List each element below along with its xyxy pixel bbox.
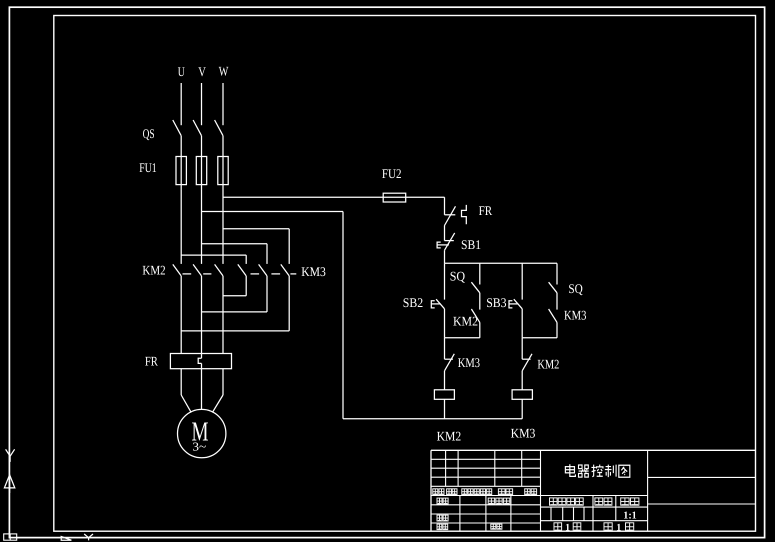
- wire control feed: [223, 196, 383, 198]
- svg-text:1: 1: [565, 522, 570, 533]
- svg-text:SQ: SQ: [568, 281, 583, 296]
- label FR contact: [479, 203, 493, 218]
- svg-text:FU1: FU1: [139, 160, 156, 175]
- coil KM2: [434, 390, 454, 400]
- wire KM3 pole2 to V line: [202, 276, 268, 312]
- label SB1: [461, 237, 481, 252]
- svg-text:SQ: SQ: [450, 268, 466, 283]
- label QS: [143, 126, 155, 141]
- wire KM3 pole1 to W line: [223, 276, 246, 296]
- svg-text:KM2: KM2: [453, 314, 478, 329]
- svg-text:SB3: SB3: [486, 295, 507, 310]
- svg-text:FR: FR: [145, 353, 158, 368]
- svg-text:KM2: KM2: [537, 356, 559, 371]
- svg-text:U: U: [178, 64, 185, 79]
- svg-text:W: W: [219, 64, 229, 79]
- label KM3 self-hold: [564, 308, 587, 323]
- wire nodeA-SQ left: [479, 263, 481, 284]
- svg-text:SB2: SB2: [403, 295, 423, 310]
- wire KM2aux-bottom: [479, 322, 481, 337]
- wire V FR-motor: [201, 363, 203, 409]
- bottom margin triangle mark: [61, 537, 71, 541]
- contact KM2 self-hold: [471, 309, 479, 322]
- svg-text:KM3: KM3: [301, 264, 326, 279]
- limit switch SQ left: [471, 282, 479, 293]
- label SB3: [486, 295, 507, 310]
- label KM2 main: [142, 263, 165, 278]
- wire U to KM3 pole1: [181, 255, 246, 264]
- wire U QS-FU1: [180, 136, 182, 157]
- label KM2 interlock: [537, 356, 559, 371]
- pushbutton SB1: [437, 233, 455, 250]
- wire control return: [202, 212, 344, 419]
- wire U supply: [180, 83, 182, 125]
- wire right group bottom: [522, 337, 557, 339]
- fuse FU2: [383, 193, 406, 202]
- linkage dashes: [183, 273, 297, 275]
- bottom margin corner squares: [4, 534, 17, 540]
- svg-text:1: 1: [616, 522, 621, 533]
- thermal contact FR: [445, 205, 467, 226]
- scale value 1:1: [623, 511, 637, 522]
- contact KM3 interlock: [445, 354, 455, 371]
- wire U FU1-KM2: [180, 185, 182, 264]
- svg-text:SB1: SB1: [461, 237, 481, 252]
- label FR heater: [145, 353, 158, 368]
- wire V supply: [201, 83, 203, 125]
- disconnect switch QS: [173, 120, 223, 136]
- svg-text:QS: QS: [143, 126, 155, 141]
- svg-text:FR: FR: [479, 203, 493, 218]
- svg-text:V: V: [198, 64, 206, 79]
- wire leftgroup-KM3int: [444, 338, 446, 359]
- limit switch SQ right: [549, 282, 557, 293]
- svg-text:3~: 3~: [192, 440, 206, 454]
- motor M 3-phase: [178, 409, 226, 457]
- label KM2 self-hold: [453, 314, 478, 329]
- wire nodeA-SB2: [444, 263, 446, 299]
- contactor KM2 main contacts: [173, 264, 223, 276]
- node W: [219, 64, 229, 79]
- bottom margin fold mark Y: [84, 534, 93, 540]
- wire SB1-nodeA: [444, 250, 446, 263]
- wire KM3aux-bottom: [556, 322, 558, 337]
- page numbers: [565, 522, 621, 533]
- label SB2: [403, 295, 423, 310]
- svg-text:KM3: KM3: [511, 426, 536, 441]
- left margin centering arrow: [4, 475, 14, 493]
- svg-text:KM3: KM3: [458, 355, 481, 370]
- wire FR-SB1: [444, 226, 446, 241]
- wire W KM2-FR: [222, 276, 224, 354]
- wire U FR-motor: [181, 369, 191, 413]
- wire KM2int-coil: [521, 371, 523, 390]
- wire W FU1-KM2: [222, 185, 224, 264]
- svg-text:FU2: FU2: [382, 166, 402, 181]
- contact KM3 self-hold: [549, 309, 557, 322]
- wire SQleft-KM2aux: [479, 293, 481, 310]
- pushbutton SB3: [509, 299, 522, 309]
- wire KM3int-coil: [444, 371, 446, 390]
- wire V KM2-FR: [201, 276, 203, 358]
- wire W FR-motor: [212, 369, 223, 413]
- wire U KM2-FR: [180, 276, 182, 354]
- wire KM2 coil to rail: [444, 399, 446, 419]
- title block grid: [431, 450, 756, 531]
- wire rightgroup-KM2int: [521, 338, 523, 359]
- wire V FU1-KM2: [201, 185, 203, 264]
- wire KM3 coil to rail: [521, 399, 523, 419]
- node U: [178, 64, 185, 79]
- svg-text:1:1: 1:1: [623, 511, 637, 522]
- wire SQright-KM3aux: [556, 293, 558, 310]
- label coil KM2: [437, 429, 462, 444]
- svg-text:KM3: KM3: [564, 308, 587, 323]
- label coil KM3: [511, 426, 536, 441]
- wire KM3 pole3 to U line: [181, 276, 289, 331]
- contactor KM3 main contacts: [238, 264, 289, 276]
- wire left group bottom: [445, 337, 480, 339]
- wire W QS-FU1: [222, 136, 224, 157]
- wire FU2 to FR: [406, 197, 445, 215]
- wire SB3-bottom: [521, 309, 523, 338]
- fuse FU1: [176, 157, 228, 185]
- title block small labels: [433, 489, 639, 531]
- label SQ right: [568, 281, 583, 296]
- label FU1: [139, 160, 156, 175]
- pushbutton SB2: [431, 299, 444, 309]
- wire V QS-FU1: [201, 136, 203, 157]
- wire bottom rail: [343, 418, 522, 420]
- wire node A rail: [445, 262, 558, 264]
- label KM3 main: [301, 264, 326, 279]
- left margin fold mark Y: [6, 449, 15, 462]
- label SQ left: [450, 268, 466, 283]
- wire W to KM3 pole3: [223, 229, 289, 264]
- svg-text:KM2: KM2: [142, 263, 165, 278]
- wire nodeA-SB3: [521, 263, 523, 299]
- label KM3 interlock: [458, 355, 481, 370]
- node V: [198, 64, 206, 79]
- wire nodeA-SQ right: [556, 263, 558, 284]
- wire V to KM3 pole2: [202, 244, 268, 264]
- label FU2: [382, 166, 402, 181]
- wire SB2-bottom: [444, 309, 446, 338]
- svg-text:KM2: KM2: [437, 429, 462, 444]
- contact KM2 interlock: [522, 354, 532, 371]
- thermal relay FR heater: [170, 354, 231, 369]
- coil KM3: [512, 390, 532, 400]
- wire W supply: [222, 83, 224, 125]
- title text 电器控制图: [565, 464, 629, 477]
